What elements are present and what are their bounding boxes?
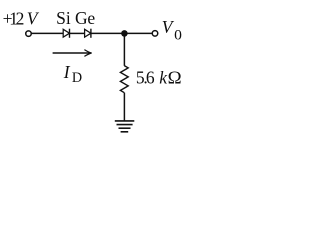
terminal V0 output	[152, 31, 158, 37]
terminal +12V input	[26, 31, 32, 37]
svg-text:Ge: Ge	[75, 8, 95, 28]
ground	[115, 121, 135, 132]
wire resistor to ground	[123, 93, 125, 121]
svg-text:5.6: 5.6	[136, 68, 155, 88]
wire diode D2 to output terminal	[91, 32, 152, 34]
node junction (dot)	[121, 30, 128, 37]
wire input to diode D1	[31, 32, 63, 34]
svg-text:I: I	[63, 62, 71, 82]
svg-text:+12: +12	[3, 9, 25, 29]
wire node to resistor	[123, 33, 125, 65]
svg-text:D: D	[72, 70, 82, 86]
svg-text:Si: Si	[56, 8, 71, 28]
current arrow ID	[53, 50, 92, 57]
diode D1 (Si)	[63, 29, 69, 38]
diode D2 (Ge)	[85, 29, 91, 38]
svg-text:0: 0	[174, 28, 182, 44]
wire between diodes	[70, 32, 85, 34]
svg-text:Ω: Ω	[168, 68, 182, 88]
resistor R 5.6k (zigzag)	[120, 66, 128, 93]
